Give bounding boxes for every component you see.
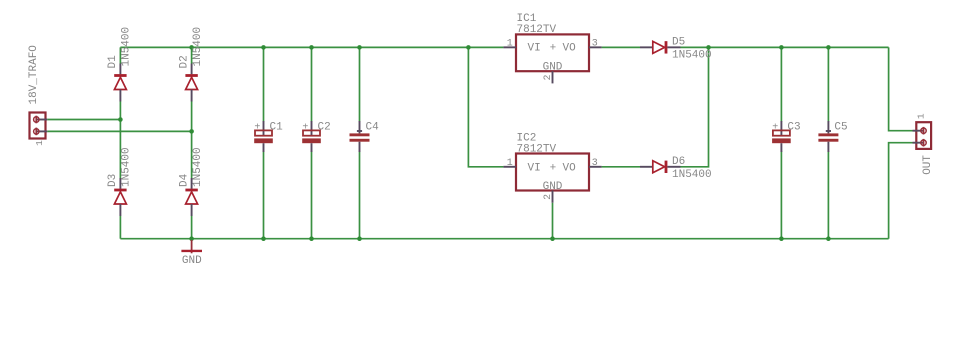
capacitor C5 (non-polarized) xyxy=(818,121,838,152)
diode D1 xyxy=(114,64,126,102)
capacitor C2 (polarized) xyxy=(302,121,321,152)
svg-text:C2: C2 xyxy=(318,122,331,134)
wire right riser top (to OUT pin1) xyxy=(889,47,913,130)
wire bottom rail xyxy=(120,238,888,240)
svg-text:1N5400: 1N5400 xyxy=(121,27,133,67)
wire top rail middle (IC1 out to D5) xyxy=(602,46,640,48)
svg-text:1N5400: 1N5400 xyxy=(192,147,204,187)
wire C4 column xyxy=(359,47,361,121)
svg-text:C1: C1 xyxy=(270,122,284,134)
diode D4 xyxy=(185,178,197,216)
svg-text:1: 1 xyxy=(34,140,45,146)
wire C3 column xyxy=(780,47,782,121)
svg-text:18V_TRAFO: 18V_TRAFO xyxy=(28,45,40,105)
svg-text:VI: VI xyxy=(528,163,541,175)
svg-text:VO: VO xyxy=(563,163,577,175)
diode D6 xyxy=(640,161,681,173)
wire D1 column xyxy=(119,47,121,63)
wire top rail left section xyxy=(120,46,503,48)
svg-text:1N5400: 1N5400 xyxy=(121,147,133,187)
svg-text:2: 2 xyxy=(543,194,554,200)
svg-text:+: + xyxy=(772,122,778,133)
junction dots bottom rail xyxy=(189,236,830,241)
capacitor C3 (polarized) xyxy=(772,121,791,152)
wire C5 column xyxy=(827,47,829,121)
connector X1 18V_TRAFO xyxy=(30,113,48,139)
svg-text:D4: D4 xyxy=(178,173,190,187)
ground symbol GND xyxy=(181,240,202,253)
svg-text:D2: D2 xyxy=(178,55,190,68)
wire IC2 output to D6 xyxy=(602,166,640,168)
svg-text:C5: C5 xyxy=(834,122,847,134)
wire connector row 2 xyxy=(47,130,191,132)
svg-text:VI: VI xyxy=(528,43,541,55)
svg-text:1N5400: 1N5400 xyxy=(672,49,712,61)
junction dots top rail xyxy=(189,45,830,50)
IC2 7812TV regulator xyxy=(503,154,601,203)
capacitor C1 (polarized) xyxy=(254,121,273,152)
svg-text:3: 3 xyxy=(592,158,598,169)
svg-text:3: 3 xyxy=(592,38,598,49)
wire right riser bottom (to OUT pin2) xyxy=(889,143,913,239)
wire connector row 1 xyxy=(47,119,120,121)
IC1 7812TV regulator xyxy=(503,34,601,83)
diode D3 xyxy=(114,178,126,216)
svg-text:1N5400: 1N5400 xyxy=(192,27,204,67)
svg-text:1: 1 xyxy=(507,158,513,169)
wire D4 column xyxy=(191,131,193,178)
connector OUT xyxy=(913,122,932,149)
wire IC2 gnd drop xyxy=(552,203,554,239)
svg-text:D3: D3 xyxy=(107,174,119,187)
svg-text:D1: D1 xyxy=(107,55,119,69)
wire IC2 input drop xyxy=(468,47,503,166)
svg-text:1: 1 xyxy=(915,113,926,119)
svg-text:7812TV: 7812TV xyxy=(517,24,557,36)
capacitor C4 (non-polarized) xyxy=(350,121,370,152)
svg-text:D5: D5 xyxy=(672,36,685,48)
svg-text:GND: GND xyxy=(543,181,563,193)
svg-text:2: 2 xyxy=(543,74,554,80)
svg-text:C3: C3 xyxy=(787,122,800,134)
svg-text:OUT: OUT xyxy=(922,155,934,175)
svg-text:7812TV: 7812TV xyxy=(517,143,557,155)
svg-text:GND: GND xyxy=(543,61,563,73)
wire C1 column xyxy=(263,47,265,121)
svg-text:D6: D6 xyxy=(672,156,685,168)
svg-text:VO: VO xyxy=(563,43,577,55)
wire top rail right section (D5 out to right riser) xyxy=(681,46,889,48)
diode D2 xyxy=(185,64,197,102)
svg-text:+: + xyxy=(550,163,557,175)
svg-text:GND: GND xyxy=(182,255,202,267)
wire D6 output riser xyxy=(681,47,709,166)
svg-text:C4: C4 xyxy=(366,122,380,134)
svg-text:+: + xyxy=(254,122,260,133)
svg-text:1: 1 xyxy=(507,38,513,49)
wire C2 column xyxy=(311,47,313,121)
svg-text:+: + xyxy=(302,122,308,133)
wire D3 column xyxy=(119,120,121,179)
junction dots connector rows xyxy=(118,117,194,134)
diode D5 xyxy=(640,41,681,53)
wire D2 column xyxy=(191,47,193,63)
svg-text:1N5400: 1N5400 xyxy=(672,169,712,181)
svg-text:+: + xyxy=(550,43,557,55)
